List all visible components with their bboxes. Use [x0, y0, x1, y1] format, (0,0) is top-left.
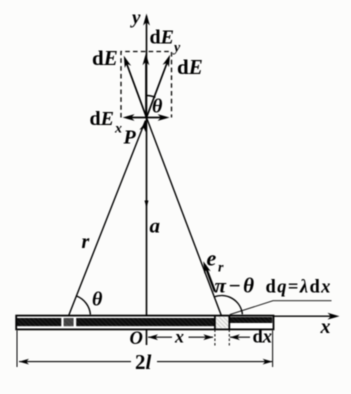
svg-text:x: x [174, 327, 184, 347]
x dimension (O to element) [148, 334, 158, 340]
x axis [274, 315, 337, 317]
2l dimension [19, 359, 29, 365]
svg-text:2l: 2l [135, 350, 152, 374]
svg-text:y: y [130, 8, 141, 29]
svg-text:y: y [172, 41, 181, 56]
rod end extension lines [16, 331, 18, 368]
svg-text:dE: dE [150, 27, 174, 49]
svg-text:θ: θ [92, 289, 103, 311]
charged rod outline [16, 316, 273, 330]
line from dx element to P [147, 118, 222, 317]
svg-text:dx: dx [253, 328, 273, 348]
svg-text:x: x [114, 122, 122, 137]
dx element borders [214, 316, 216, 330]
vector dEx (left horizontal) [126, 117, 147, 119]
rod band right of dx element (thinner) [230, 317, 272, 323]
svg-text:e: e [207, 246, 217, 271]
svg-text:π−θ: π−θ [215, 274, 257, 298]
unit vector e_r [205, 265, 215, 292]
x-component arrow (right horizontal) [147, 117, 167, 119]
svg-text:P: P [123, 127, 137, 149]
svg-text:O: O [130, 329, 143, 349]
line r (from left charge element to P) [69, 121, 146, 317]
dx extension lines below rod [214, 330, 216, 347]
rod hatched (charged) band [17, 318, 215, 326]
dx element (light) [216, 317, 229, 328]
left charge element (slightly lighter) [64, 318, 74, 326]
y axis (vertical line through P, O and a) [146, 16, 148, 345]
leader line from label to dx element [230, 301, 332, 315]
angle π−θ arc (at dx element) [214, 296, 242, 315]
y axis arrowhead [143, 14, 150, 26]
svg-text:dE: dE [92, 46, 118, 70]
dx pointer arrow [230, 334, 240, 340]
left element boundary gaps [61, 317, 63, 327]
dashed component rectangle [121, 52, 172, 118]
vector dEy [145, 58, 147, 118]
svg-text:x: x [320, 316, 331, 338]
vector dE (left) [126, 61, 147, 118]
angle θ arc (top, between dEy and dE) [147, 96, 156, 98]
svg-text:dq=λdx: dq=λdx [266, 278, 332, 298]
svg-text:r: r [82, 231, 90, 253]
svg-text:a: a [150, 214, 161, 238]
small arrow on distance a line [145, 201, 149, 209]
svg-text:θ: θ [152, 96, 163, 118]
angle θ arc (bottom left) [77, 296, 91, 315]
arrowhead of r at P [139, 119, 150, 133]
vector dE (right) [147, 59, 169, 118]
svg-text:dE: dE [90, 108, 114, 130]
svg-text:dE: dE [177, 55, 203, 79]
